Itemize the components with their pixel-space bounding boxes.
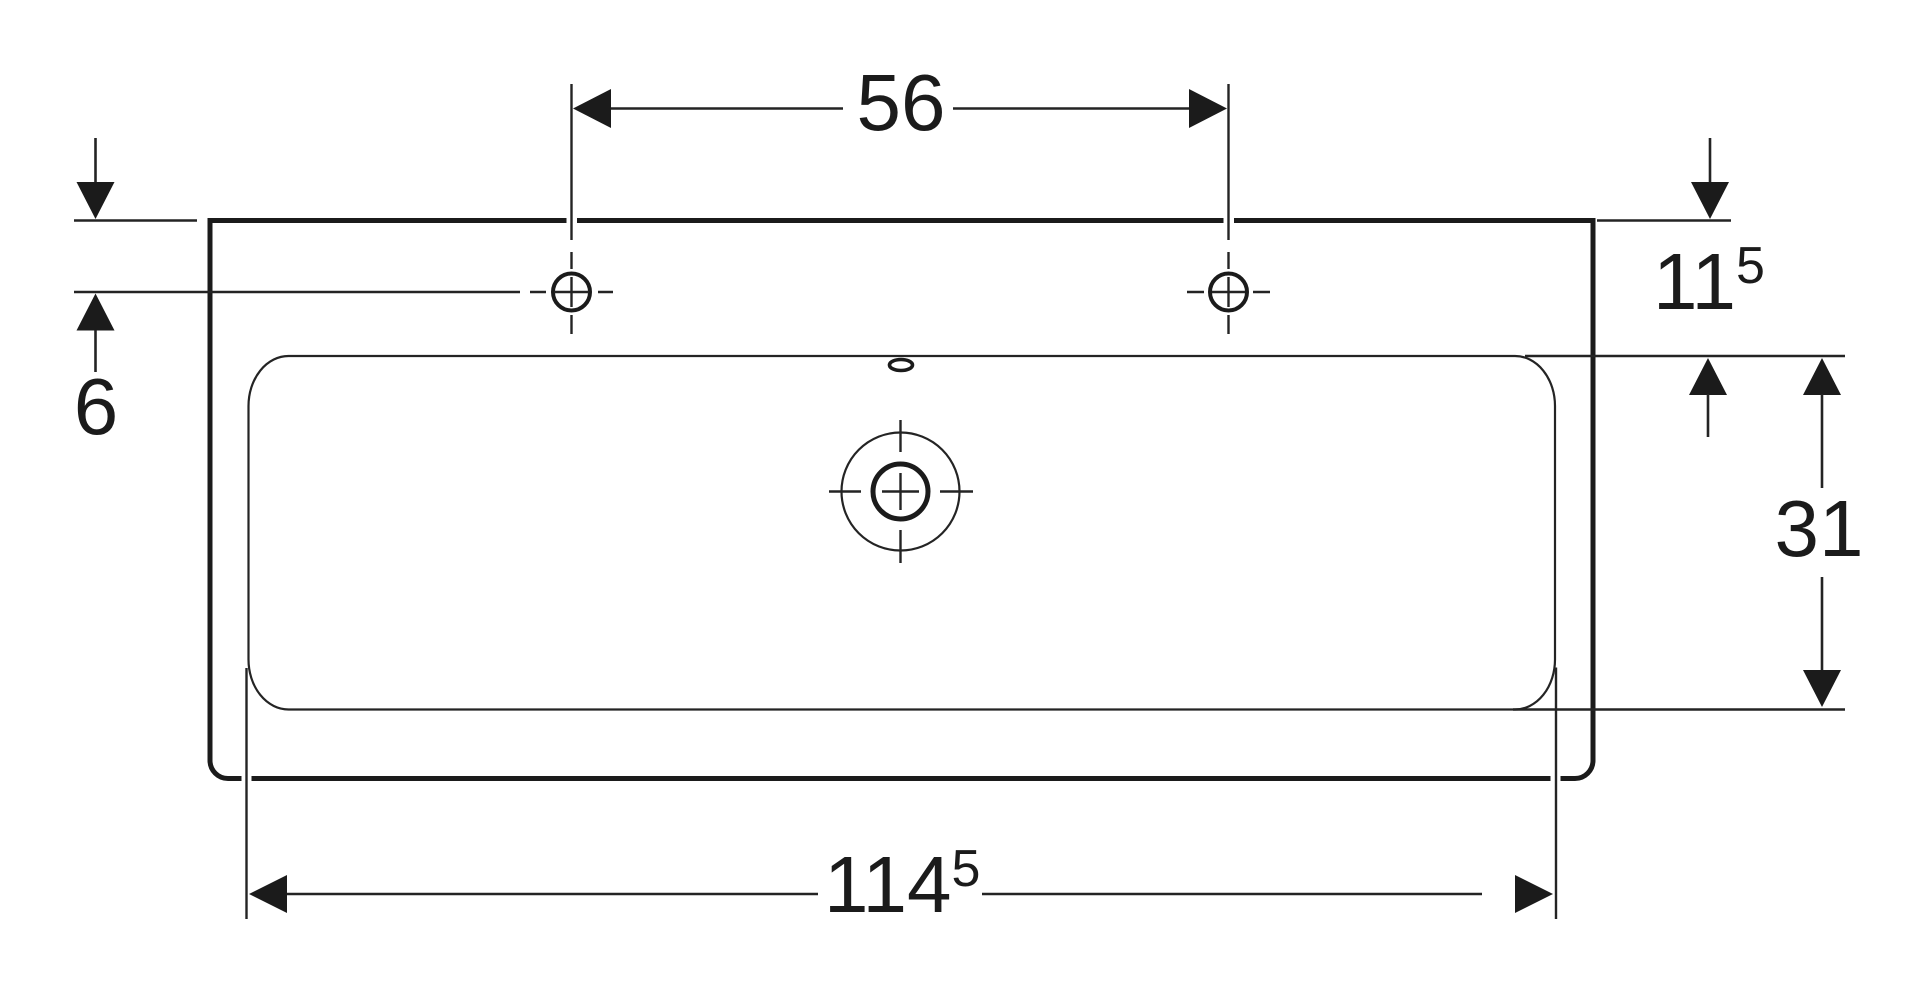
basin bottom reference line <box>1513 708 1845 710</box>
outer basin outline (thick) <box>208 218 1596 779</box>
dimension 11.5: down arrow <box>1709 138 1712 184</box>
dimension 114.5: right arrowhead <box>1515 875 1553 913</box>
dimension 6: up arrow <box>77 294 115 331</box>
drain crosshair <box>829 420 973 563</box>
dimension 6: top tick <box>74 219 197 222</box>
right faucet hole <box>1210 274 1247 311</box>
basin top reference line <box>1525 355 1845 357</box>
left faucet hole <box>553 274 590 311</box>
dimension 31: up arrow <box>1803 358 1841 395</box>
dimension 6: down arrow <box>94 138 97 184</box>
svg-text:31: 31 <box>1775 484 1864 573</box>
dimension 114.5: left extension line <box>245 668 247 919</box>
drain outer circle <box>842 433 960 551</box>
right faucet hole centerlines <box>1187 84 1270 334</box>
overflow hole <box>890 360 913 371</box>
drain inner circle <box>873 464 928 519</box>
dimension 56: right arrowhead <box>1189 89 1227 128</box>
dimension 11.5: top tick <box>1597 219 1731 222</box>
svg-text:56: 56 <box>857 58 946 147</box>
dimension 56: left arrowhead <box>573 89 611 128</box>
dimension 114.5: right extension line <box>1555 668 1557 920</box>
dimension 56: line <box>610 107 1190 110</box>
svg-text:6: 6 <box>74 362 119 451</box>
dimension 6: lower extension line <box>74 291 520 293</box>
inner bowl outline <box>249 356 1556 710</box>
dimension 114.5: line <box>287 893 1482 896</box>
dimension 31: down arrow <box>1821 577 1824 671</box>
dimension 11.5: up arrow <box>1689 358 1727 395</box>
dimension 114.5: left arrowhead <box>249 875 287 913</box>
left faucet hole centerlines <box>530 84 613 334</box>
